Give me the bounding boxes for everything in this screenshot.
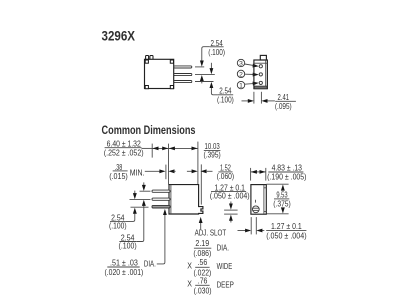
- svg-text:WIDE: WIDE: [217, 262, 233, 271]
- dim B up arrow at lead3 + elbow: [211, 87, 217, 95]
- row2 min leader: [145, 170, 161, 172]
- extension line lead1: [195, 66, 204, 68]
- level lines: [224, 209, 238, 211]
- dim lead1-lead2 arrows x143.8: [143, 182, 145, 186]
- ext line body left: [168, 144, 170, 185]
- 6.40 dim outward arrows: [152, 147, 168, 149]
- svg-text:MIN.: MIN.: [130, 168, 145, 177]
- pin hole 1: [259, 81, 262, 84]
- dim lead2-lead3 arrows x134.8: [134, 191, 136, 195]
- svg-text:(.050 ± .004): (.050 ± .004): [210, 192, 250, 201]
- extension line lead2: [195, 74, 215, 76]
- svg-text:(.015): (.015): [109, 172, 128, 181]
- front view body top drawing: [254, 60, 268, 89]
- 9.53 ext lines: [267, 183, 289, 185]
- 10.03 dim outward arrows: [169, 147, 198, 149]
- svg-text:(.100): (.100): [217, 96, 234, 105]
- lead 2 side view: [174, 74, 192, 76]
- circled pin 3: [237, 59, 244, 66]
- front view bottom band: [254, 86, 267, 89]
- svg-text:(.100): (.100): [208, 48, 225, 57]
- svg-text:DEEP: DEEP: [217, 280, 235, 289]
- svg-text:.76: .76: [198, 276, 208, 285]
- ext line lead tip: [151, 144, 153, 158]
- svg-text:(.060): (.060): [217, 172, 235, 181]
- adjustment screw bumps: [146, 56, 149, 60]
- ext line body right upper: [197, 142, 199, 185]
- svg-text:2.19: 2.19: [195, 239, 209, 248]
- leader pin3: [245, 64, 255, 66]
- 4.83 dim outward arrows: [251, 171, 266, 173]
- svg-text:2.41: 2.41: [278, 93, 290, 102]
- row1 dim line from label: [142, 147, 153, 149]
- svg-text:2.54: 2.54: [219, 87, 232, 96]
- svg-text:9.53: 9.53: [276, 191, 288, 200]
- ext dash lead3: [131, 206, 149, 208]
- 2.41 dim arrows: [242, 100, 250, 102]
- svg-text:(.375): (.375): [273, 200, 291, 209]
- svg-text:1.27 ± 0.1: 1.27 ± 0.1: [271, 222, 302, 231]
- circled pin 1: [237, 81, 244, 88]
- ext dash lead1: [140, 190, 151, 192]
- svg-text:1: 1: [239, 83, 243, 90]
- right 1.27 ext lines: [250, 217, 252, 234]
- pin hole 2: [259, 73, 262, 76]
- svg-text:.51 ± .03: .51 ± .03: [110, 259, 138, 268]
- front view inner right wall: [265, 60, 267, 86]
- dim B down arrow at lead2: [210, 63, 212, 69]
- svg-text:(.050 ± .004): (.050 ± .004): [266, 232, 307, 241]
- ext line .38 left: [165, 165, 167, 180]
- dim A up arrow at lead2: [201, 80, 203, 83]
- svg-text:(.030): (.030): [194, 286, 212, 295]
- detached 1.27 dim down arrow: [230, 202, 232, 205]
- svg-text:3296X: 3296X: [102, 28, 136, 44]
- svg-text:(.190 ± .005): (.190 ± .005): [267, 172, 307, 181]
- svg-text:2: 2: [239, 71, 243, 78]
- ext dash lead2: [130, 198, 151, 200]
- svg-text:(.086): (.086): [193, 249, 211, 258]
- svg-text:4.83 ± .13: 4.83 ± .13: [272, 164, 303, 173]
- front view top tab: [260, 55, 266, 60]
- svg-text:(.020 ± .001): (.020 ± .001): [104, 268, 143, 277]
- adj slot leader arrow: [200, 222, 202, 229]
- svg-text:3: 3: [239, 61, 243, 68]
- svg-text:X: X: [187, 279, 192, 288]
- svg-text:(.100): (.100): [109, 221, 127, 230]
- lead 1 side view: [174, 66, 192, 68]
- leader pin1: [245, 82, 255, 85]
- svg-text:DIA.: DIA.: [144, 260, 156, 269]
- lead 3 side view: [174, 81, 192, 83]
- lead 1 cd: [152, 190, 170, 192]
- svg-text:(.100): (.100): [119, 242, 137, 251]
- left flange line: [170, 185, 172, 214]
- 2.41 ext lines: [253, 92, 255, 104]
- svg-text:Common Dimensions: Common Dimensions: [102, 123, 196, 137]
- svg-text:(.395): (.395): [204, 151, 221, 160]
- right 1.27 arrows: [238, 230, 247, 232]
- 1.52 dim left arrow: [187, 170, 193, 172]
- inner wall: [263, 185, 265, 214]
- front view body common dims: [251, 185, 266, 215]
- 9.53 arrows: [281, 185, 285, 191]
- svg-text:(.252 ± .052): (.252 ± .052): [104, 149, 144, 158]
- ext line 1.52 right: [200, 164, 202, 204]
- lead 3 cd gray: [152, 205, 170, 208]
- locator tick: [255, 200, 257, 203]
- trimmer body side view: [145, 59, 174, 88]
- svg-text:(.095): (.095): [275, 102, 292, 111]
- corner squares: [145, 60, 148, 63]
- side view body common dims: [169, 185, 203, 214]
- lead 2 cd: [152, 198, 170, 200]
- circled pin 2: [237, 70, 244, 77]
- leader pin2: [245, 73, 255, 75]
- detached 1.27 up arrow: [230, 220, 232, 222]
- svg-text:DIA.: DIA.: [217, 244, 229, 253]
- 4.83 ext lines: [250, 168, 252, 181]
- pin hole 3: [259, 65, 262, 68]
- leader from 2.54 top label down to lead1: [202, 47, 210, 62]
- leader .51 to lead3: [157, 214, 165, 264]
- svg-text:ADJ. SLOT: ADJ. SLOT: [195, 229, 227, 238]
- svg-text:X: X: [187, 262, 192, 271]
- screw circle: [252, 206, 259, 213]
- extension line lead3: [195, 81, 214, 83]
- front view top band: [254, 62, 268, 64]
- svg-text:.56: .56: [198, 258, 208, 267]
